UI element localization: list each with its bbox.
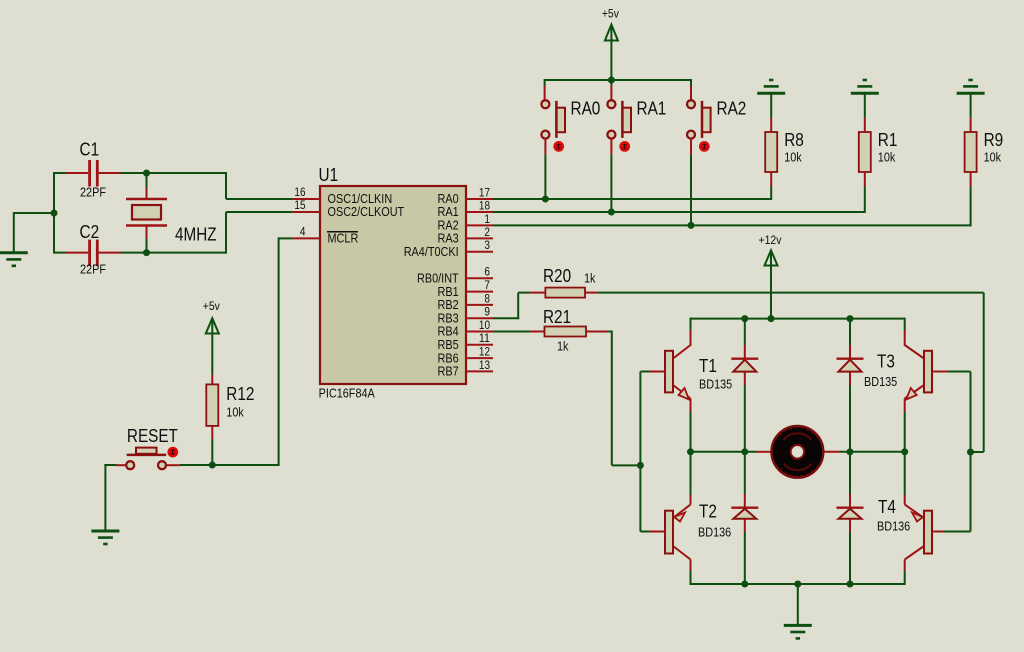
label T1 xyxy=(699,356,717,376)
svg-text:RA4/T0CKI: RA4/T0CKI xyxy=(404,245,459,259)
node left junction xyxy=(51,210,58,217)
svg-text:10k: 10k xyxy=(984,151,1002,165)
capacitor C2 xyxy=(66,240,121,267)
wire ground stem xyxy=(797,584,799,625)
svg-text:RESET: RESET xyxy=(127,426,178,446)
svg-text:OSC1/CLKIN: OSC1/CLKIN xyxy=(328,192,393,206)
svg-text:BD136: BD136 xyxy=(877,520,910,534)
pin 12 number xyxy=(479,347,490,359)
wire base bus right xyxy=(970,372,972,532)
pin name RB2 xyxy=(438,298,459,312)
wire net RA0 xyxy=(493,198,771,200)
node R21-base junction xyxy=(637,462,644,469)
pin 7 number xyxy=(484,280,490,292)
resistor R1 xyxy=(859,118,871,187)
svg-text:18: 18 xyxy=(479,200,490,212)
svg-text:RB2: RB2 xyxy=(438,298,459,312)
button RESET xyxy=(126,448,166,470)
svg-text:4: 4 xyxy=(300,227,306,239)
wire crystal loop top right xyxy=(121,172,228,174)
svg-text:R8: R8 xyxy=(784,130,804,150)
svg-text:R20: R20 xyxy=(543,266,571,286)
svg-text:22PF: 22PF xyxy=(80,263,106,277)
pin name RB3 xyxy=(438,311,459,325)
svg-text:+12v: +12v xyxy=(759,233,782,247)
wire R12 bottom xyxy=(211,439,213,465)
wire reset left stub xyxy=(116,464,126,466)
pin name OSC2/CLKOUT xyxy=(328,205,405,219)
wire btn RA1 down xyxy=(610,139,612,212)
svg-text:MCLR: MCLR xyxy=(328,232,359,246)
label R12 xyxy=(226,384,254,404)
label R20 value xyxy=(584,272,596,286)
label RA2 xyxy=(717,99,747,119)
svg-text:RA1: RA1 xyxy=(438,205,459,219)
svg-text:R21: R21 xyxy=(543,307,571,327)
svg-text:R12: R12 xyxy=(226,384,254,404)
wire reset left xyxy=(104,464,116,466)
label R20 xyxy=(543,266,571,286)
svg-text:13: 13 xyxy=(479,360,490,372)
svg-text:16: 16 xyxy=(294,187,305,199)
label R9 value xyxy=(984,151,1002,165)
svg-text:PIC16F84A: PIC16F84A xyxy=(319,387,376,401)
wire motor row left xyxy=(691,451,757,453)
wire btn RA2 drop xyxy=(690,79,692,100)
wire ground branch vertical xyxy=(13,212,15,252)
wire +5v stem xyxy=(610,40,612,81)
wire T2 base xyxy=(640,531,650,533)
pin name RB0/INT xyxy=(417,272,459,286)
pin 1 number xyxy=(484,214,490,226)
button RA0 xyxy=(541,100,565,138)
wire btn RA0 drop xyxy=(544,79,546,100)
svg-text:17: 17 xyxy=(479,187,490,199)
svg-text:R1: R1 xyxy=(878,130,898,150)
svg-text:15: 15 xyxy=(294,200,305,212)
pin 9 stub xyxy=(466,317,493,319)
svg-text:22PF: 22PF xyxy=(80,186,106,200)
label 4MHZ xyxy=(175,224,217,244)
button RESET actuator xyxy=(169,448,177,456)
svg-text:RB3: RB3 xyxy=(438,311,459,325)
svg-text:C2: C2 xyxy=(80,222,100,242)
pin 10 stub xyxy=(466,331,493,333)
svg-text:RB5: RB5 xyxy=(438,338,459,352)
svg-text:BD135: BD135 xyxy=(699,378,732,392)
node motor row T1 xyxy=(687,448,694,455)
wire btn RA2 down xyxy=(690,139,692,226)
svg-text:1: 1 xyxy=(484,214,490,226)
resistor R12 xyxy=(206,375,218,439)
crystal 4MHZ xyxy=(126,174,167,252)
op-amp U1 PIC16F84A body xyxy=(320,186,466,384)
svg-text:RA1: RA1 xyxy=(637,99,667,119)
button RA2 actuator xyxy=(700,142,708,150)
wire bottom rail xyxy=(691,583,905,585)
pin 2 stub xyxy=(466,237,493,239)
svg-text:10: 10 xyxy=(479,320,490,332)
svg-text:BD136: BD136 xyxy=(698,526,731,540)
svg-text:RA2: RA2 xyxy=(438,219,459,233)
svg-text:RA3: RA3 xyxy=(438,232,459,246)
motor M1 xyxy=(757,426,840,478)
svg-text:1k: 1k xyxy=(584,272,596,286)
svg-text:4MHZ: 4MHZ xyxy=(175,224,217,244)
pin 15 stub xyxy=(292,211,320,213)
wire C1 row left xyxy=(53,172,66,174)
node motor row D2 xyxy=(847,448,854,455)
node RA1-button junction xyxy=(608,209,615,216)
pin 8 number xyxy=(484,293,490,305)
diode D1 xyxy=(731,319,758,452)
svg-text:10k: 10k xyxy=(878,151,896,165)
wire R1 bottom xyxy=(864,187,866,214)
capacitor C1 xyxy=(66,160,121,187)
svg-text:12: 12 xyxy=(479,347,490,359)
svg-text:11: 11 xyxy=(479,333,490,345)
label R12 value xyxy=(226,406,244,420)
svg-text:T2: T2 xyxy=(699,502,717,522)
label R1 value xyxy=(878,151,896,165)
node +5v rail junction xyxy=(608,77,615,84)
pin name RB4 xyxy=(438,325,459,339)
svg-text:RA0: RA0 xyxy=(571,99,601,119)
node motor row T3 xyxy=(901,448,908,455)
pin name RB7 xyxy=(438,365,459,379)
ground above R9 xyxy=(957,80,985,93)
wire RB3 to R20 xyxy=(493,293,530,320)
svg-text:RB1: RB1 xyxy=(438,285,459,299)
label T3 xyxy=(877,352,895,372)
diode D3 xyxy=(731,452,758,584)
node rail D1 xyxy=(741,315,748,322)
label T4 value xyxy=(877,520,910,534)
svg-text:RB6: RB6 xyxy=(438,351,459,365)
pin 3 stub xyxy=(466,251,493,253)
ground bottom xyxy=(784,625,812,638)
ground above R8 xyxy=(757,80,785,93)
pin 11 stub xyxy=(466,344,493,346)
label U1 xyxy=(319,165,339,185)
transistor T2 xyxy=(650,452,691,585)
svg-text:+5v: +5v xyxy=(203,299,220,313)
svg-text:RB7: RB7 xyxy=(438,365,459,379)
label R1 xyxy=(878,130,898,150)
node rail +12v xyxy=(768,315,775,322)
wire C1-C2 left vertical xyxy=(53,172,55,254)
wire R9 bottom xyxy=(970,187,972,227)
pin 1 stub xyxy=(466,224,493,226)
label R8 value xyxy=(784,151,802,165)
svg-text:9: 9 xyxy=(484,307,490,319)
label RA1 xyxy=(637,99,667,119)
label C1 xyxy=(80,140,100,160)
pin 18 stub xyxy=(466,211,493,213)
svg-text:T1: T1 xyxy=(699,356,717,376)
wire R8 top xyxy=(770,95,772,118)
pin 11 number xyxy=(479,333,490,345)
svg-text:3: 3 xyxy=(484,240,490,252)
wire C2 right to crystal bottom rail xyxy=(121,252,228,254)
node bottom D3 xyxy=(741,581,748,588)
svg-text:7: 7 xyxy=(484,280,490,292)
pin 7 stub xyxy=(466,291,493,293)
wire MCLR vertical xyxy=(278,237,280,465)
pin name RA1 xyxy=(438,205,459,219)
svg-text:BD135: BD135 xyxy=(864,375,897,389)
wire C2 row left xyxy=(53,252,66,254)
pin name RA2 xyxy=(438,219,459,233)
svg-text:T3: T3 xyxy=(877,352,895,372)
label C2 value xyxy=(80,263,106,277)
pin 6 stub xyxy=(466,277,493,279)
wire R12 top xyxy=(211,333,213,375)
pin 17 number xyxy=(479,187,490,199)
label R21 xyxy=(543,307,571,327)
svg-text:10k: 10k xyxy=(226,406,244,420)
pin name OSC1/CLKIN xyxy=(328,192,393,206)
wire RB4 to R21 xyxy=(493,331,530,333)
resistor R20 xyxy=(530,288,598,298)
node C2-crystal junction xyxy=(143,249,150,256)
label R8 xyxy=(784,130,804,150)
label C1 value xyxy=(80,186,106,200)
pin 12 stub xyxy=(466,357,493,359)
pin name RA4/T0CKI xyxy=(404,245,459,259)
resistor R9 xyxy=(965,118,977,187)
label R9 xyxy=(984,130,1004,150)
ground above R1 xyxy=(851,80,879,93)
wire R8 bottom xyxy=(770,187,772,201)
wire T1 base xyxy=(640,371,650,373)
node RA2-button junction xyxy=(688,222,695,229)
wire R21 down xyxy=(608,331,641,466)
svg-text:U1: U1 xyxy=(319,165,339,185)
pin name RA0 xyxy=(438,192,459,206)
svg-text:+5v: +5v xyxy=(602,7,619,21)
pin 16 stub xyxy=(292,198,320,200)
wire reset row xyxy=(167,464,280,466)
diode D4 xyxy=(837,452,864,584)
power +5v left xyxy=(203,299,220,334)
wire top rail xyxy=(545,79,691,81)
label RA0 xyxy=(571,99,601,119)
wire loop right vertical bottom xyxy=(225,212,227,254)
transistor T1 xyxy=(650,318,691,452)
pin 18 number xyxy=(479,200,490,212)
node bottom D4 xyxy=(847,581,854,588)
wire net RA1 xyxy=(493,211,865,213)
transistor T4 xyxy=(905,452,971,585)
wire ground branch horizontal xyxy=(14,212,54,214)
svg-text:8: 8 xyxy=(484,293,490,305)
wire R20 long xyxy=(598,293,984,452)
svg-text:10k: 10k xyxy=(784,151,802,165)
resistor R21 xyxy=(530,327,607,337)
node C1-crystal junction xyxy=(143,170,150,177)
label T4 xyxy=(878,497,896,517)
pin 4 stub xyxy=(292,237,320,239)
svg-text:RA2: RA2 xyxy=(717,99,747,119)
button RA0 actuator xyxy=(555,142,563,150)
label R21 value xyxy=(557,340,569,354)
pin 10 number xyxy=(479,320,490,332)
wire +12v stem xyxy=(770,265,772,319)
resistor R8 xyxy=(765,118,777,187)
pin 15 number xyxy=(294,200,305,212)
node bottom ground xyxy=(794,581,801,588)
button RA2 xyxy=(687,100,711,138)
pin 6 number xyxy=(484,267,490,279)
wire loop right vertical top xyxy=(225,172,227,199)
pin name RB6 xyxy=(438,351,459,365)
svg-text:R9: R9 xyxy=(984,130,1004,150)
pin name RA3 xyxy=(438,232,459,246)
wire btn RA1 drop xyxy=(610,80,612,100)
label RESET xyxy=(127,426,178,446)
wire MCLR horizontal xyxy=(279,237,293,239)
pin 3 number xyxy=(484,240,490,252)
pin name RB1 xyxy=(438,285,459,299)
svg-text:6: 6 xyxy=(484,267,490,279)
power +5v top xyxy=(602,7,619,41)
wire base bus left xyxy=(639,372,641,532)
label T2 xyxy=(699,502,717,522)
label T1 value xyxy=(699,378,732,392)
ground left xyxy=(0,253,28,266)
wire R9 top xyxy=(970,95,972,118)
label T2 value xyxy=(698,526,731,540)
pin 9 number xyxy=(484,307,490,319)
pin 17 stub xyxy=(466,198,493,200)
wire motor row right xyxy=(839,451,905,453)
svg-text:C1: C1 xyxy=(80,140,100,160)
node R20-base junction xyxy=(967,449,974,456)
svg-text:2: 2 xyxy=(484,227,490,239)
svg-text:T4: T4 xyxy=(878,497,896,517)
label PIC16F84A xyxy=(319,387,376,401)
wire R1 top xyxy=(864,95,866,118)
svg-text:RB4: RB4 xyxy=(438,325,459,339)
pin 13 stub xyxy=(466,370,493,372)
label T3 value xyxy=(864,375,897,389)
pin name RB5 xyxy=(438,338,459,352)
wire OSC2 horizontal xyxy=(226,211,292,213)
pin 4 number xyxy=(300,227,306,239)
node reset junction xyxy=(209,462,216,469)
svg-text:RA0: RA0 xyxy=(438,192,459,206)
wire C1 right to crystal top rail xyxy=(121,172,228,174)
wire btn RA0 down xyxy=(544,139,546,199)
button RA1 xyxy=(607,100,631,138)
power +12v xyxy=(759,233,782,266)
transistor T3 xyxy=(905,318,971,452)
pin 8 stub xyxy=(466,304,493,306)
svg-text:1k: 1k xyxy=(557,340,569,354)
label C2 xyxy=(80,222,100,242)
pin 2 number xyxy=(484,227,490,239)
node motor row D1 xyxy=(741,448,748,455)
pin 13 number xyxy=(479,360,490,372)
wire OSC1 horizontal xyxy=(226,198,292,200)
ground reset xyxy=(91,531,119,544)
wire net RA2 xyxy=(493,224,971,226)
button RA1 actuator xyxy=(621,142,629,150)
pin name MCLR xyxy=(327,232,358,246)
svg-text:OSC2/CLKOUT: OSC2/CLKOUT xyxy=(328,205,405,219)
wire top H rail xyxy=(691,318,905,320)
node RA0-button junction xyxy=(542,196,549,203)
node rail D2 xyxy=(847,315,854,322)
pin 16 number xyxy=(294,187,305,199)
svg-text:RB0/INT: RB0/INT xyxy=(417,272,459,286)
diode D2 xyxy=(837,319,864,452)
wire reset left drop xyxy=(104,464,106,530)
